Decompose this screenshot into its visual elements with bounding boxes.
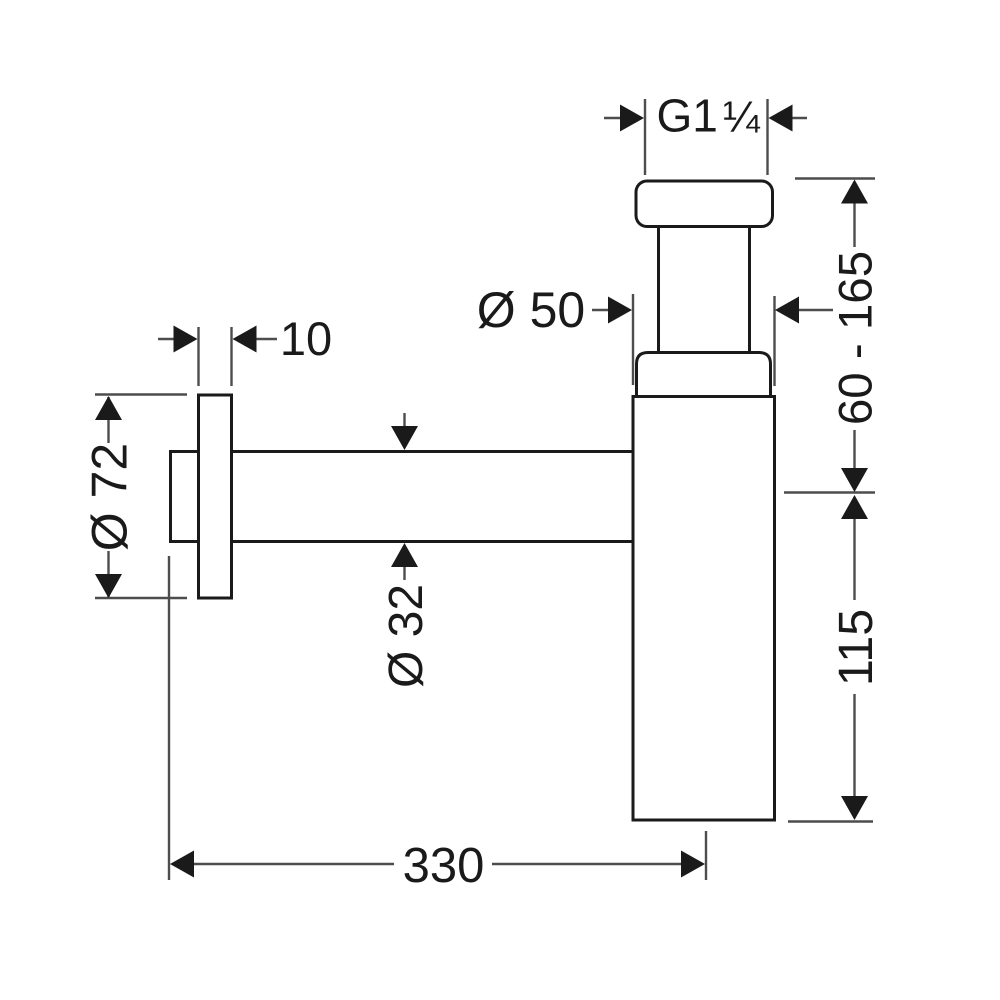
svg-text:Ø 72: Ø 72 (82, 443, 138, 551)
arrowhead O72 bottom (95, 574, 122, 598)
arrowhead 10 left (174, 326, 198, 353)
arrowhead O32 top (391, 426, 418, 450)
dim O72 line segments (107, 397, 109, 597)
arrowhead O50 left (608, 297, 632, 324)
dim 115 bottom extension (788, 820, 873, 822)
dim O50 tails (592, 309, 833, 311)
arrowhead 10 right (233, 326, 257, 353)
dim 115 line segments (853, 518, 855, 798)
arrowhead O50 right (775, 297, 799, 324)
arrowhead O72 top (95, 396, 122, 420)
arrowhead G1-1/4 right (769, 105, 793, 132)
inlet pipe vertical (659, 227, 750, 353)
trap body cup (633, 397, 775, 821)
dim G1-1/4 tails (604, 117, 807, 119)
top nut cap (636, 181, 773, 227)
arrowhead 330 right (681, 851, 705, 878)
svg-text:Ø 50: Ø 50 (477, 282, 585, 338)
svg-text:115: 115 (829, 609, 883, 686)
dim 330 line segments (193, 863, 682, 865)
dim 60-165 top extension (795, 177, 875, 179)
arrowhead 115 bottom (841, 796, 868, 820)
svg-text:10: 10 (280, 312, 332, 365)
dim O32 line segments (403, 413, 405, 580)
wall flange (199, 395, 232, 598)
dim O72 extension lines (95, 395, 187, 599)
horizontal outlet pipe (170, 450, 632, 543)
dim 10 tails (158, 338, 277, 340)
dim 60-165 line segments (853, 203, 855, 469)
dim 10 extension lines (199, 327, 232, 386)
dim O50 extension lines (633, 294, 775, 386)
collar nut (637, 353, 771, 397)
dim 330 extension lines (169, 556, 706, 880)
arrowhead O32 bottom (391, 543, 418, 567)
arrowhead 60-165 top (841, 180, 868, 204)
arrowhead 115 top (841, 495, 868, 519)
svg-text:¼: ¼ (723, 93, 761, 142)
dim G1-1/4 extension lines (645, 99, 768, 175)
arrowhead 330 left (170, 851, 194, 878)
arrowhead 60-165 bottom (841, 468, 868, 492)
svg-text:60 - 165: 60 - 165 (830, 251, 883, 425)
mid extension line (784, 491, 875, 493)
svg-text:330: 330 (403, 839, 485, 893)
svg-text:Ø 32: Ø 32 (380, 584, 433, 688)
svg-text:G1: G1 (657, 90, 718, 142)
arrowhead G1-1/4 left (620, 105, 644, 132)
